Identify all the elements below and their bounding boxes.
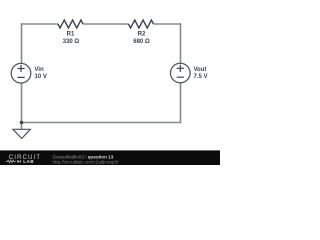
footer bar — [0, 150, 220, 165]
resistor R2 — [129, 20, 154, 28]
wire bottom horizontal — [22, 122, 181, 124]
svg-text:680 Ω: 680 Ω — [133, 39, 150, 45]
wire Vout bottom to bottom-right corner — [180, 83, 182, 124]
svg-text:7.5 V: 7.5 V — [194, 74, 208, 80]
voltage source Vin — [11, 63, 31, 83]
svg-text:Vin: Vin — [35, 67, 45, 73]
ground — [13, 129, 30, 138]
resistor R1 — [58, 20, 83, 28]
wire R2 to top-right corner — [154, 23, 181, 25]
svg-text:10 V: 10 V — [35, 74, 47, 80]
svg-text:http://circuitlab.com/c2q8jrus: http://circuitlab.com/c2q8jrusq8t/ — [53, 159, 120, 164]
junction node — [20, 121, 24, 125]
svg-text:R2: R2 — [138, 32, 146, 38]
footer logo diode — [17, 160, 20, 163]
wire between R1 and R2 — [83, 23, 129, 25]
svg-text:R1: R1 — [67, 32, 75, 38]
wire right vertical (corner to Vout top) — [180, 23, 182, 63]
wire Vin bottom to ground/junction — [21, 83, 23, 129]
svg-text:330 Ω: 330 Ω — [63, 39, 80, 45]
wire top-left horizontal segment — [22, 23, 59, 25]
svg-text:Vout: Vout — [194, 67, 207, 73]
svg-text:LAB: LAB — [23, 159, 34, 164]
wire left vertical (corner to Vin top) — [21, 23, 23, 63]
voltage source Vout — [171, 63, 191, 83]
footer logo resistor squiggle — [6, 160, 16, 163]
